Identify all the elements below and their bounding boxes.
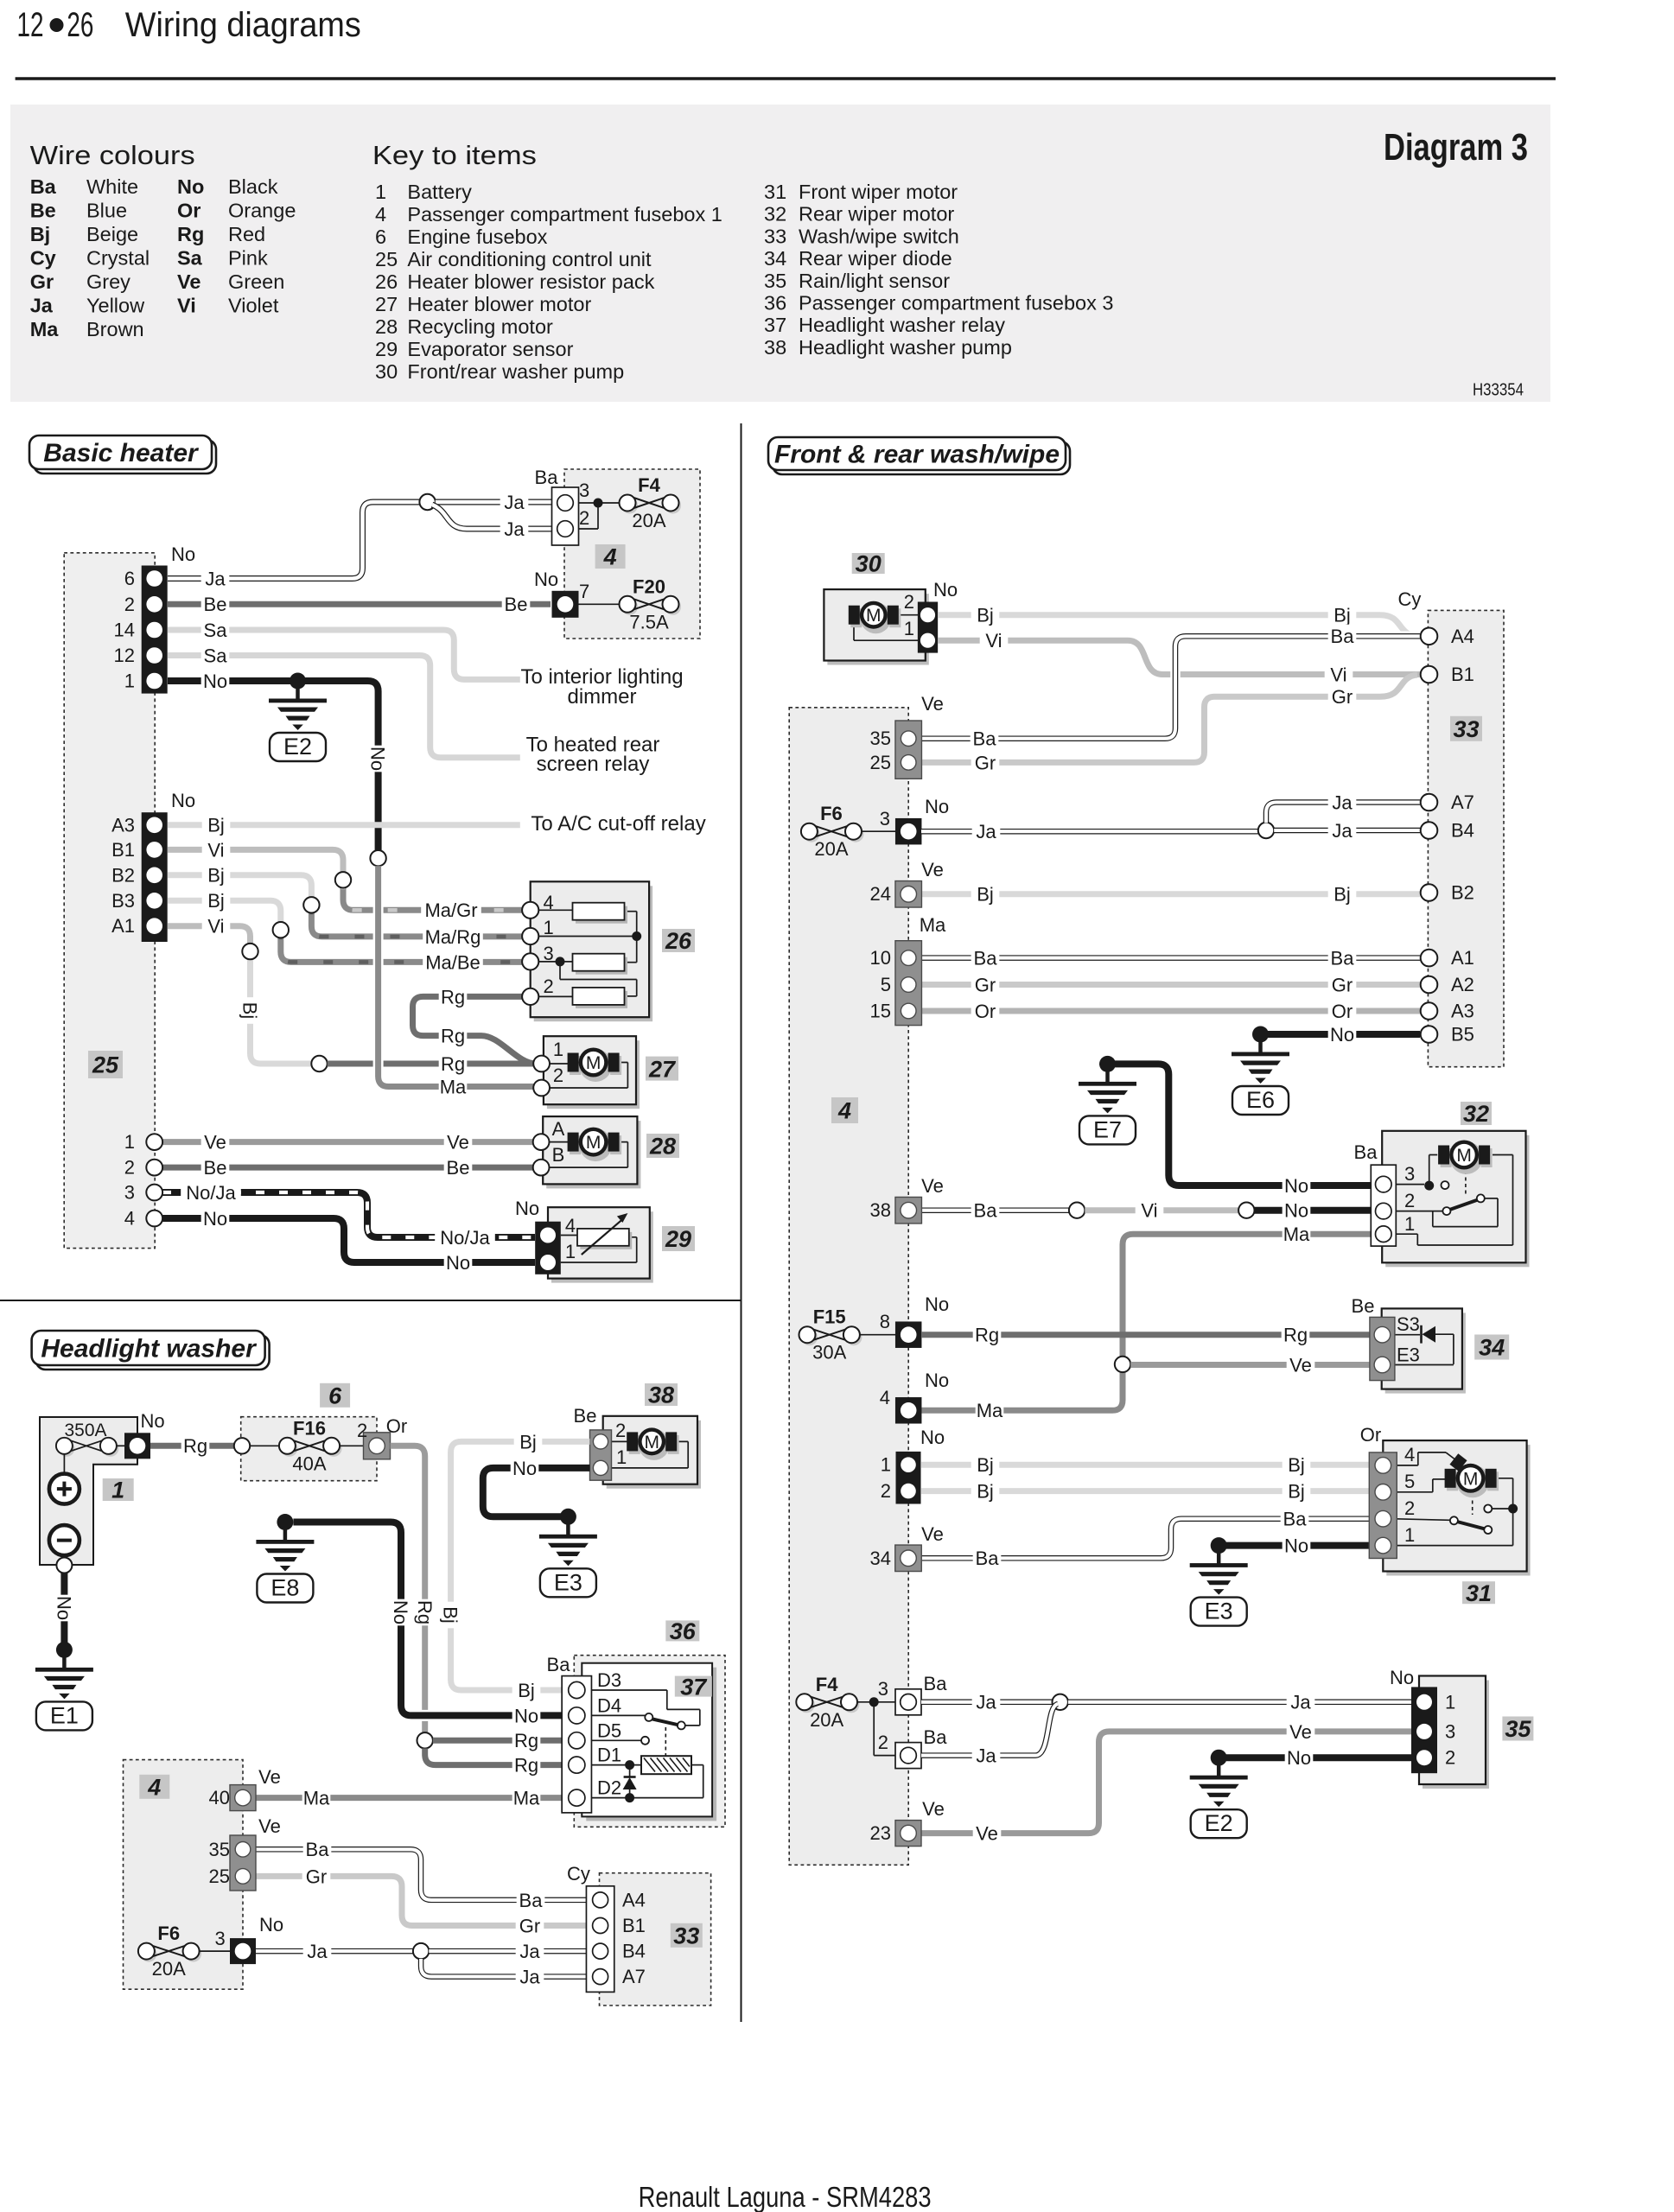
31 junction dot bbox=[1508, 1504, 1518, 1514]
svg-text:27: 27 bbox=[375, 293, 398, 315]
svg-text:2: 2 bbox=[615, 1420, 626, 1441]
31 internal pin4 bbox=[1391, 1465, 1418, 1466]
svg-text:24: 24 bbox=[870, 883, 891, 905]
svg-text:1: 1 bbox=[111, 1478, 124, 1503]
svg-text:Bj: Bj bbox=[519, 1431, 537, 1452]
wire MaGr to 26 pin4 bbox=[343, 880, 523, 910]
svg-text:Be: Be bbox=[505, 594, 528, 615]
svg-text:Gr: Gr bbox=[975, 974, 996, 995]
connector 25 lower strip bbox=[142, 812, 168, 942]
fusebox 4 outline bbox=[564, 469, 700, 639]
svg-text:Ba: Ba bbox=[974, 1200, 998, 1222]
svg-text:B1: B1 bbox=[622, 1915, 646, 1936]
svg-text:No: No bbox=[171, 543, 195, 565]
svg-text:Pink: Pink bbox=[228, 247, 268, 270]
junction dot 26 a bbox=[632, 931, 641, 941]
svg-text:White: White bbox=[86, 175, 138, 198]
fusebox 6 outline bbox=[241, 1417, 377, 1481]
connector pin 4 right bbox=[895, 1397, 922, 1424]
label Ba at A4 bbox=[1328, 625, 1357, 647]
svg-text:Ja: Ja bbox=[976, 1745, 996, 1767]
splice Vi/MaGr bbox=[335, 872, 351, 887]
ground E6 bbox=[1252, 1027, 1269, 1043]
31 motor bbox=[1456, 1465, 1489, 1497]
37 internal D4 bbox=[584, 1714, 646, 1716]
svg-text:Rg: Rg bbox=[414, 1600, 436, 1624]
connector 10/5/15 bbox=[895, 941, 922, 1026]
svg-text:No: No bbox=[367, 747, 389, 771]
svg-text:3: 3 bbox=[543, 943, 553, 964]
wire label No vertical bbox=[367, 746, 391, 772]
label Ja to pin2 bbox=[500, 517, 529, 539]
svg-text:Ve: Ve bbox=[177, 270, 200, 293]
svg-text:Ma: Ma bbox=[920, 914, 946, 936]
svg-text:Headlight washer: Headlight washer bbox=[41, 1335, 258, 1363]
svg-text:10: 10 bbox=[870, 947, 891, 969]
wire No E7 to 32 pin3 bbox=[1108, 1064, 1376, 1185]
fuse F4 20A bbox=[621, 498, 638, 514]
label Ma 32 bbox=[1283, 1223, 1311, 1245]
svg-text:2: 2 bbox=[579, 507, 589, 529]
wire No E3 to 31 pin1 bbox=[1219, 1542, 1374, 1549]
svg-text:Key to items: Key to items bbox=[372, 140, 537, 170]
relay coil bbox=[641, 1756, 691, 1774]
svg-text:Ba: Ba bbox=[1354, 1141, 1378, 1163]
wire Bj pin1R to 31 pin4 bbox=[921, 1462, 1374, 1468]
svg-text:34: 34 bbox=[1479, 1335, 1505, 1361]
passenger fusebox 4 right outline bbox=[789, 708, 908, 1866]
svg-text:Basic heater: Basic heater bbox=[43, 439, 200, 467]
label Bj pump bbox=[514, 1430, 543, 1452]
splice Ja bbox=[419, 494, 435, 510]
battery output circle bbox=[56, 1558, 72, 1573]
svg-text:4: 4 bbox=[147, 1775, 161, 1801]
svg-text:1: 1 bbox=[1404, 1524, 1415, 1546]
32 internal pin3 bbox=[1391, 1184, 1424, 1185]
32 connector bbox=[1371, 1165, 1396, 1246]
label Bj to D3 bbox=[512, 1678, 541, 1700]
svg-text:E2: E2 bbox=[283, 734, 312, 760]
svg-text:Vi: Vi bbox=[177, 295, 196, 317]
34 connector bbox=[1370, 1317, 1395, 1380]
connector pin 34 bbox=[895, 1545, 922, 1572]
svg-text:No: No bbox=[53, 1596, 74, 1620]
svg-text:3: 3 bbox=[1404, 1163, 1415, 1185]
svg-text:F6: F6 bbox=[157, 1923, 180, 1944]
label Ma bbox=[439, 1075, 468, 1097]
svg-text:Ja: Ja bbox=[504, 492, 525, 513]
wire splice to F16 bbox=[250, 1445, 279, 1446]
label 29 bbox=[662, 1226, 695, 1251]
svg-text:34: 34 bbox=[764, 247, 786, 270]
wire F15 to pin8 bbox=[860, 1334, 895, 1336]
wire Ja splice to B4R bbox=[1274, 828, 1420, 834]
37 coil junction dot bbox=[625, 1760, 634, 1770]
svg-text:28: 28 bbox=[649, 1134, 676, 1160]
svg-text:M: M bbox=[866, 606, 882, 626]
wire F6 to pin3L bbox=[200, 1950, 230, 1952]
svg-text:F6: F6 bbox=[820, 803, 843, 824]
wire No E8 to relay D4 bbox=[293, 1522, 569, 1716]
A/C control unit 25 outline bbox=[64, 553, 155, 1249]
svg-text:Bj: Bj bbox=[440, 1606, 461, 1624]
svg-text:12: 12 bbox=[17, 6, 44, 44]
svg-text:Ja: Ja bbox=[519, 1967, 540, 1988]
svg-text:29: 29 bbox=[375, 338, 398, 360]
label No to 32pin3 bbox=[1283, 1173, 1311, 1196]
svg-text:3: 3 bbox=[1445, 1720, 1455, 1742]
32 open contact bbox=[1442, 1181, 1449, 1189]
labels Ja left bbox=[303, 1939, 332, 1961]
label Ve 34 bbox=[1287, 1353, 1315, 1376]
wire Vi splice to splice bbox=[1085, 1207, 1238, 1213]
svg-text:Engine fusebox: Engine fusebox bbox=[407, 226, 547, 248]
svg-text:Gr: Gr bbox=[975, 752, 996, 773]
label Rg bbox=[181, 1434, 210, 1457]
svg-text:No: No bbox=[1284, 1200, 1308, 1222]
wire Sa pin14 to interior lighting dimmer bbox=[168, 630, 520, 679]
wire Ja pin3L to B4 bbox=[256, 1948, 413, 1955]
svg-text:Diagram 3: Diagram 3 bbox=[1384, 126, 1528, 168]
26 internal wiring bbox=[538, 909, 573, 911]
label 32 bbox=[1461, 1102, 1492, 1125]
svg-text:M: M bbox=[586, 1053, 601, 1073]
svg-text:Ma: Ma bbox=[440, 1076, 467, 1097]
33 pin circles bbox=[1421, 628, 1438, 645]
label No 31 bbox=[1283, 1534, 1311, 1556]
svg-text:No: No bbox=[512, 1458, 537, 1479]
connector 25 upper strip bbox=[142, 566, 168, 694]
svg-text:2: 2 bbox=[1404, 1190, 1415, 1211]
svg-text:Grey: Grey bbox=[86, 270, 130, 293]
svg-text:27: 27 bbox=[648, 1056, 677, 1082]
svg-text:Vi: Vi bbox=[985, 630, 1002, 652]
svg-text:No: No bbox=[920, 1427, 945, 1448]
label 1 bbox=[103, 1478, 134, 1501]
labels Ba Gr right bbox=[517, 1888, 545, 1910]
svg-text:Ma: Ma bbox=[30, 318, 60, 340]
wire junction to F4 bbox=[598, 502, 620, 504]
svg-text:3: 3 bbox=[579, 480, 589, 501]
svg-text:4: 4 bbox=[837, 1098, 851, 1124]
svg-text:Rg: Rg bbox=[183, 1435, 207, 1457]
svg-text:Ba: Ba bbox=[1331, 948, 1355, 969]
svg-text:D1: D1 bbox=[597, 1745, 621, 1766]
37 dashed link bbox=[665, 1727, 666, 1756]
svg-text:Ma: Ma bbox=[303, 1788, 330, 1809]
junction dot F4 bbox=[869, 1697, 879, 1707]
svg-text:Ve: Ve bbox=[921, 1523, 944, 1545]
svg-text:No/Ja: No/Ja bbox=[186, 1182, 236, 1204]
svg-text:Ja: Ja bbox=[1332, 791, 1353, 813]
svg-text:A1: A1 bbox=[111, 915, 135, 937]
ground E3 washwipe bbox=[1211, 1537, 1227, 1554]
two-tone labels bbox=[421, 899, 481, 921]
wire No E6 to B5 bbox=[1261, 1031, 1421, 1038]
labels Bj pump bbox=[971, 603, 1000, 626]
wire Bj pin24 to B2 bbox=[921, 891, 1420, 897]
27 pin circles bbox=[533, 1056, 550, 1072]
labels Rg 34 bbox=[973, 1323, 1002, 1345]
svg-text:B3: B3 bbox=[111, 890, 135, 912]
svg-text:25: 25 bbox=[870, 752, 891, 773]
svg-text:Ve: Ve bbox=[921, 693, 944, 715]
svg-text:Or: Or bbox=[1360, 1424, 1381, 1446]
31 open contact bbox=[1484, 1505, 1492, 1513]
28 pin circles bbox=[533, 1134, 550, 1150]
wire Ja pin2F4 to splice bbox=[921, 1704, 1058, 1756]
svg-text:Ma/Gr: Ma/Gr bbox=[424, 899, 477, 921]
wire Rg 26pin2 loop bbox=[413, 996, 537, 1064]
label 35 bbox=[1502, 1717, 1533, 1741]
rear wiper motor 32 box bbox=[1385, 1135, 1529, 1268]
32 dot to motor bbox=[1429, 1155, 1430, 1186]
31 internal pin1 bbox=[1391, 1545, 1513, 1547]
svg-text:B: B bbox=[552, 1144, 565, 1166]
label Rg lower bbox=[439, 1052, 468, 1074]
svg-text:Ja: Ja bbox=[205, 568, 226, 589]
svg-text:Be: Be bbox=[204, 1157, 227, 1179]
fuse F6 20A right bbox=[803, 826, 819, 842]
label Rg to D5 bbox=[512, 1729, 541, 1751]
svg-text:dimmer: dimmer bbox=[567, 685, 636, 709]
32 internal pin2 bbox=[1391, 1211, 1442, 1212]
junction dot fuse F4 bbox=[594, 499, 603, 508]
fuse F16 40A bbox=[281, 1440, 297, 1457]
svg-text:Orange: Orange bbox=[228, 200, 296, 222]
wire name labels strip2 bbox=[202, 813, 231, 836]
svg-text:1: 1 bbox=[904, 618, 914, 639]
svg-text:20A: 20A bbox=[810, 1709, 843, 1731]
svg-text:Cy: Cy bbox=[567, 1863, 590, 1885]
wire Bj pin2R to 31 pin5 bbox=[921, 1488, 1374, 1494]
svg-text:4: 4 bbox=[543, 892, 553, 913]
wire Ba pin10 to A1 bbox=[921, 955, 1420, 961]
svg-text:Beige: Beige bbox=[86, 223, 138, 245]
svg-text:Bj: Bj bbox=[977, 1481, 994, 1503]
svg-text:Ba: Ba bbox=[535, 467, 559, 488]
wire pin7 to F20 bbox=[579, 603, 620, 605]
svg-text:33: 33 bbox=[1453, 716, 1479, 742]
svg-text:Ba: Ba bbox=[973, 728, 997, 750]
labels Bj 31 bbox=[971, 1453, 1000, 1476]
connector pin 23 bbox=[895, 1821, 921, 1847]
label Rg upper bbox=[439, 985, 468, 1007]
37 connector strip bbox=[562, 1676, 591, 1813]
svg-text:1: 1 bbox=[616, 1446, 627, 1468]
wire label No vertical hw bbox=[390, 1599, 413, 1626]
label 36 bbox=[665, 1620, 699, 1641]
svg-text:No: No bbox=[171, 790, 195, 811]
28 internal wiring bbox=[549, 1141, 577, 1143]
fuse F20 7.5A bbox=[621, 599, 638, 615]
connector pin 2 engine fusebox bbox=[364, 1433, 391, 1459]
label 30 bbox=[852, 553, 885, 574]
27 internal wiring bbox=[550, 1063, 577, 1065]
wire Ve pin1 to 28 A bbox=[162, 1139, 533, 1145]
31 internal pin2 bbox=[1391, 1519, 1450, 1521]
svg-text:37: 37 bbox=[680, 1674, 708, 1700]
svg-text:Ba: Ba bbox=[547, 1654, 571, 1675]
svg-text:E8: E8 bbox=[271, 1575, 299, 1601]
28 motor bbox=[579, 1128, 612, 1161]
label 38 bbox=[645, 1383, 678, 1406]
svg-text:30: 30 bbox=[375, 360, 398, 383]
svg-text:1: 1 bbox=[375, 181, 386, 203]
svg-text:Bj: Bj bbox=[1333, 605, 1351, 626]
svg-text:F4: F4 bbox=[816, 1674, 838, 1695]
wire Ja splice to A7L bbox=[421, 1959, 592, 1977]
svg-text:20A: 20A bbox=[152, 1958, 186, 1980]
26 pin circles bbox=[522, 902, 538, 918]
label No pump bbox=[511, 1456, 539, 1478]
wire Ba pin35L to A4 bbox=[256, 1849, 592, 1900]
label 28 bbox=[646, 1134, 679, 1158]
label Be before pin7 bbox=[502, 593, 531, 615]
svg-text:Ja: Ja bbox=[976, 1692, 996, 1713]
fuse F15 30A bbox=[801, 1329, 818, 1345]
ground E8 bbox=[277, 1514, 293, 1530]
svg-text:D3: D3 bbox=[597, 1669, 621, 1691]
38 connector bbox=[590, 1430, 612, 1480]
heater blower motor 27 box bbox=[547, 1040, 640, 1109]
svg-text:2: 2 bbox=[1404, 1497, 1415, 1519]
svg-text:4: 4 bbox=[375, 203, 386, 226]
label Vi mid bbox=[1136, 1198, 1164, 1221]
svg-text:B2: B2 bbox=[1451, 882, 1474, 904]
svg-text:2: 2 bbox=[881, 1480, 891, 1502]
wire MaRg to 26 pin1 bbox=[311, 905, 523, 937]
wire Ba pin34 to 31 pin2 bbox=[921, 1519, 1374, 1559]
svg-text:Be: Be bbox=[30, 200, 56, 222]
svg-text:Black: Black bbox=[228, 175, 278, 198]
32 moving contact bbox=[1442, 1207, 1450, 1215]
svg-text:1: 1 bbox=[543, 917, 553, 938]
svg-text:40A: 40A bbox=[292, 1452, 326, 1474]
svg-text:25: 25 bbox=[209, 1866, 230, 1887]
wire Gr pin5 to A2 bbox=[921, 982, 1420, 988]
wire pin3 to junction bbox=[573, 502, 598, 504]
connector pin 3 right bbox=[895, 818, 922, 845]
wire No pin4 to 29 bbox=[162, 1218, 535, 1262]
svg-text:1: 1 bbox=[565, 1241, 576, 1262]
header rule bbox=[16, 77, 1556, 80]
column divider bbox=[741, 423, 742, 2022]
svg-text:No: No bbox=[925, 796, 949, 817]
wire Ja splice to A7 bbox=[1266, 803, 1420, 823]
svg-text:Rg: Rg bbox=[441, 1053, 465, 1075]
svg-text:Ve: Ve bbox=[258, 1815, 281, 1837]
svg-text:Ve: Ve bbox=[921, 1175, 944, 1197]
wire Ja pin3R to B4 bbox=[921, 829, 1258, 835]
svg-text:Rg: Rg bbox=[177, 223, 204, 245]
svg-text:Or: Or bbox=[386, 1415, 407, 1437]
section title Basic heater bbox=[34, 440, 216, 474]
svg-text:Gr: Gr bbox=[1332, 686, 1353, 708]
connector pins 1,2 right bbox=[896, 1452, 921, 1504]
svg-text:Ba: Ba bbox=[1283, 1509, 1308, 1530]
svg-text:No: No bbox=[1287, 1747, 1311, 1769]
wire Gr 25R to B1 bbox=[921, 675, 1417, 762]
wire Ja splice to 35 pin1 bbox=[1068, 1700, 1415, 1706]
svg-text:No: No bbox=[515, 1198, 539, 1219]
svg-text:Rear wiper motor: Rear wiper motor bbox=[799, 203, 954, 226]
evaporator sensor 29 box bbox=[551, 1211, 653, 1282]
label No 35 bbox=[1285, 1746, 1314, 1769]
svg-text:Bj: Bj bbox=[518, 1680, 535, 1701]
wire Bj pump30 to A4 bbox=[938, 615, 1420, 637]
label No B5 bbox=[1328, 1022, 1357, 1045]
svg-text:23: 23 bbox=[870, 1822, 891, 1844]
wash/wipe switch 33 left outline bbox=[600, 1873, 711, 2005]
svg-text:Passenger compartment fusebox: Passenger compartment fusebox 1 bbox=[407, 203, 722, 226]
svg-text:Recycling motor: Recycling motor bbox=[407, 315, 553, 338]
svg-text:Wiring diagrams: Wiring diagrams bbox=[125, 6, 361, 44]
relay 37 box bbox=[586, 1668, 716, 1821]
label Vi pump bbox=[980, 629, 1009, 652]
svg-text:Be: Be bbox=[447, 1157, 470, 1179]
svg-text:4: 4 bbox=[565, 1215, 576, 1236]
svg-text:No: No bbox=[259, 1914, 283, 1935]
31 internal pin5 bbox=[1391, 1491, 1433, 1493]
svg-text:15: 15 bbox=[870, 1001, 891, 1022]
splice Bj/MaBe bbox=[273, 922, 289, 938]
29 internal wiring bbox=[561, 1235, 577, 1236]
splice Bj/Rg bbox=[311, 1056, 327, 1071]
svg-text:Violet: Violet bbox=[228, 295, 279, 317]
svg-text:Wash/wipe switch: Wash/wipe switch bbox=[799, 225, 959, 247]
connector pin 3 F4 bbox=[895, 1689, 921, 1715]
label 27 bbox=[646, 1057, 678, 1081]
svg-text:2: 2 bbox=[124, 1157, 135, 1179]
33 left connector bbox=[586, 1886, 614, 1993]
svg-text:Rg: Rg bbox=[514, 1730, 538, 1751]
svg-text:Ma: Ma bbox=[977, 1400, 1003, 1421]
labels to 29 bbox=[435, 1225, 495, 1248]
svg-text:Vi: Vi bbox=[207, 839, 224, 861]
32 switch arm bbox=[1448, 1200, 1478, 1211]
fusebox 4 left outline bbox=[124, 1760, 244, 1990]
svg-text:D5: D5 bbox=[597, 1720, 621, 1742]
27 motor bbox=[579, 1049, 612, 1082]
wire Ja splice to pin2 bbox=[432, 505, 552, 529]
svg-text:Wire colours: Wire colours bbox=[30, 140, 195, 170]
label 26 bbox=[662, 929, 695, 952]
svg-text:3: 3 bbox=[215, 1928, 226, 1949]
31 dot to contact bbox=[1492, 1508, 1513, 1510]
svg-text:No: No bbox=[1284, 1535, 1308, 1557]
svg-text:Rg: Rg bbox=[1283, 1325, 1308, 1346]
svg-text:Bj: Bj bbox=[207, 865, 225, 887]
svg-text:F4: F4 bbox=[638, 474, 660, 496]
svg-text:Ma: Ma bbox=[1283, 1224, 1310, 1245]
svg-text:Ba: Ba bbox=[519, 1890, 544, 1911]
section divider bbox=[0, 1300, 742, 1301]
svg-text:7: 7 bbox=[579, 581, 589, 602]
splice No to Ma bbox=[370, 850, 385, 866]
battery fuse 350A bbox=[58, 1440, 74, 1457]
svg-text:Ve: Ve bbox=[976, 1823, 998, 1845]
wire Or down to relay bbox=[391, 1446, 425, 1732]
svg-text:E7: E7 bbox=[1093, 1116, 1122, 1142]
svg-text:32: 32 bbox=[1463, 1101, 1489, 1127]
connector pins 3,2 bbox=[552, 487, 579, 545]
svg-text:Ma: Ma bbox=[513, 1788, 540, 1809]
wire junction to pin2 bbox=[597, 503, 599, 529]
label Rg to D1 bbox=[512, 1753, 541, 1776]
resistor R3 bbox=[576, 991, 627, 1008]
svg-text:Rg: Rg bbox=[441, 986, 465, 1007]
